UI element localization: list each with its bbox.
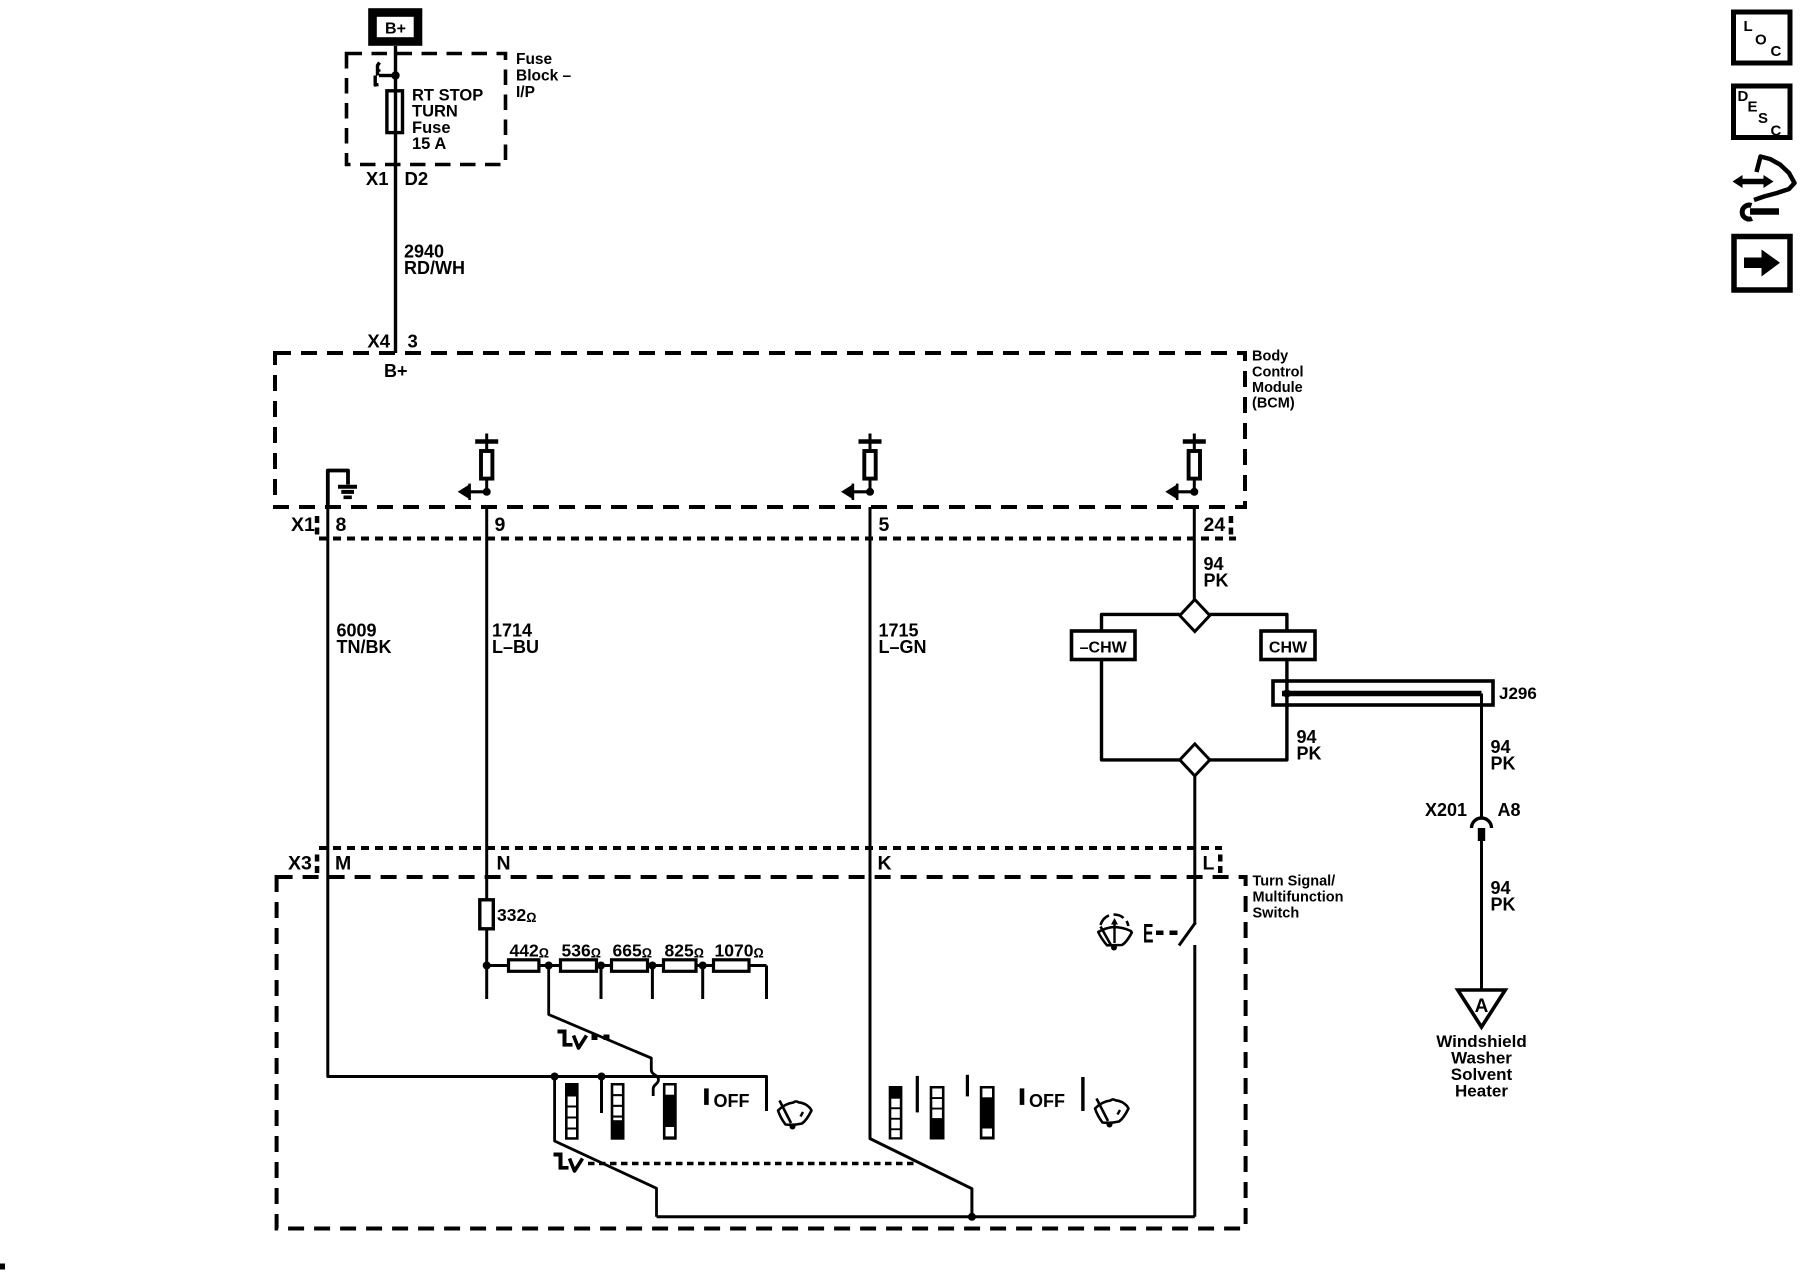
bus bar J296 (1273, 681, 1493, 705)
junction + stub (N lower contact) (598, 1073, 606, 1114)
position bar L1 (565, 1083, 579, 1140)
wire label 1715 L-GN (879, 621, 927, 658)
battery B+ terminal (373, 13, 419, 42)
svg-text:PK: PK (1297, 744, 1322, 764)
wiper contact 1 (delay positions) (549, 966, 659, 1097)
fuse holder clip (375, 63, 399, 86)
LOC box (1734, 12, 1791, 63)
svg-text:X4: X4 (367, 331, 390, 352)
wire label 2940 RD/WH (404, 242, 465, 279)
DESC box (1734, 86, 1791, 140)
wire 1715 L-GN (pin 5 / K) (870, 507, 972, 1217)
svg-text:N: N (497, 853, 511, 875)
svg-text:–CHW: –CHW (1080, 640, 1128, 657)
washer icon (left group) (778, 1101, 812, 1130)
svg-text:PK: PK (1204, 571, 1229, 591)
driver output pin 9 (BCM) (458, 434, 499, 501)
wire label 1714 L-BU (492, 621, 539, 658)
wire 94 PK X201 to heater (1480, 841, 1483, 990)
wire label 94 PK (right) (1491, 737, 1516, 774)
svg-text:E: E (1143, 919, 1154, 949)
svg-text:RD/WH: RD/WH (404, 258, 465, 278)
svg-text:Body: Body (1252, 349, 1288, 365)
position bar L3 (663, 1083, 677, 1140)
tap stub end of ladder (765, 966, 768, 1000)
position tick R0 (916, 1076, 919, 1113)
svg-text:TN/BK: TN/BK (337, 637, 392, 657)
svg-text:O: O (1755, 32, 1767, 49)
detent symbol 1 (558, 1030, 587, 1049)
splice diamond (bottom) (1180, 744, 1210, 776)
coil CHW box (1261, 631, 1315, 660)
switch arm (washer switch) (1179, 923, 1196, 946)
driver output pin 24 (BCM) (1165, 434, 1206, 501)
svg-text:L–GN: L–GN (879, 637, 927, 657)
connector X4 / 3 labels (BCM) (367, 331, 417, 352)
resistor 442 ohm (509, 941, 550, 972)
wire splice to CHW (1210, 614, 1287, 631)
svg-text:Module: Module (1252, 380, 1303, 396)
svg-text:X1: X1 (291, 514, 315, 536)
wire 94 PK bus to X201 (1480, 694, 1483, 819)
svg-text:X201: X201 (1425, 800, 1467, 820)
position tick R1 (966, 1075, 969, 1097)
fuse block I/P dashed box (347, 54, 506, 165)
windshield washer solvent heater label (1436, 1032, 1527, 1101)
connector A triangle (heater) (1458, 990, 1505, 1027)
svg-text:I/P: I/P (516, 84, 535, 101)
page corner mark (0, 1264, 5, 1270)
wire label 6009 TN/BK (337, 621, 392, 658)
junction bottom bus (968, 1213, 976, 1221)
wire 2940 B+ feed (394, 46, 397, 353)
wire N resistor to ladder (485, 929, 488, 999)
svg-text:(BCM): (BCM) (1252, 396, 1295, 412)
svg-text:OFF: OFF (714, 1091, 750, 1111)
svg-text:J296: J296 (1499, 684, 1537, 703)
fuse block label (516, 51, 572, 101)
bottom bus wire (657, 1215, 1195, 1218)
driver output pin 5 (BCM) (841, 434, 882, 501)
wire 94 PK (pin 24 to splice) (1193, 507, 1196, 600)
resistor 332 ohm (480, 900, 537, 929)
svg-text:L: L (1744, 18, 1753, 35)
resistor 665 ohm (612, 941, 653, 972)
junction + tap stub after 665 ohm (648, 962, 656, 1000)
ground symbol (BCM internal) (328, 471, 357, 508)
svg-text:X1: X1 (366, 168, 389, 189)
E dashes (1156, 931, 1178, 936)
wire 6009 TN/BK (pin 8 / M) (328, 507, 767, 1111)
svg-text:E: E (1748, 99, 1758, 116)
resistor 825 ohm (664, 941, 705, 972)
detent symbol 2 (554, 1153, 583, 1172)
svg-text:C: C (1771, 43, 1782, 60)
wire label 94 PK (lower) (1491, 878, 1516, 915)
svg-text:C: C (1771, 123, 1782, 140)
svg-text:24: 24 (1204, 514, 1226, 536)
navigation arrows + wrench icon (1733, 157, 1795, 220)
position bar L2 (611, 1083, 625, 1140)
resistor 536 ohm (561, 941, 602, 972)
svg-text:PK: PK (1491, 895, 1516, 915)
junction + tap stub after 825 ohm (699, 962, 707, 1000)
wire label 94 PK (upper) (1204, 554, 1229, 591)
svg-text:Multifunction: Multifunction (1253, 890, 1344, 906)
coil -CHW box (1072, 631, 1136, 660)
svg-text:15 A: 15 A (412, 135, 446, 153)
connector X1 strip (291, 514, 1236, 539)
turn signal switch label (1253, 874, 1344, 922)
svg-text:A: A (1475, 996, 1489, 1017)
wire CHW to bus J296 (1285, 660, 1288, 694)
connector X3 strip (288, 848, 1223, 875)
detent 1 dashes (592, 1035, 610, 1041)
svg-text:TURN: TURN (412, 103, 458, 121)
connector X1 / D2 labels (fuse block) (366, 168, 428, 189)
junction + tap stub after 442 ohm (545, 962, 553, 970)
svg-text:9: 9 (495, 514, 506, 536)
wire L switch lower (1193, 945, 1196, 1217)
wire -CHW to splice 2 (1102, 660, 1180, 760)
svg-text:PK: PK (1491, 754, 1516, 774)
junction M-wire / wiper 2 (551, 1073, 559, 1081)
svg-text:Block –: Block – (516, 68, 572, 85)
svg-text:3: 3 (408, 331, 418, 352)
position bar R1 (889, 1086, 903, 1140)
OFF tick (right) (1020, 1088, 1025, 1105)
svg-text:D2: D2 (405, 168, 429, 189)
fuse RT STOP TURN 15 A (387, 91, 403, 133)
position bar R2 (930, 1086, 945, 1140)
turn signal / multifunction switch dashed box (277, 877, 1246, 1229)
svg-text:Fuse: Fuse (516, 51, 553, 68)
wire label 94 PK (below CHW) (1297, 727, 1322, 764)
resistor ladder bus (483, 962, 767, 970)
svg-text:K: K (878, 853, 892, 875)
heated washer icon (1098, 915, 1132, 951)
svg-text:Switch: Switch (1253, 906, 1300, 922)
svg-text:M: M (335, 853, 351, 875)
svg-text:OFF: OFF (1029, 1091, 1065, 1111)
position bar R3 (980, 1086, 995, 1140)
resistor 1070 ohm (714, 941, 764, 972)
position tick R2 (1081, 1077, 1084, 1111)
svg-text:CHW: CHW (1269, 640, 1308, 657)
switch gang dotted line (588, 1162, 914, 1165)
svg-text:B+: B+ (384, 361, 408, 381)
wiper contact 2 (555, 1077, 657, 1217)
inline connector X201 A8 (1425, 800, 1521, 841)
svg-text:A8: A8 (1498, 800, 1521, 820)
BCM dashed box (275, 353, 1245, 507)
svg-text:X3: X3 (288, 853, 312, 875)
splice diamond (top) (1180, 600, 1210, 632)
svg-text:5: 5 (879, 514, 890, 536)
BCM label (1252, 349, 1304, 412)
wire L splice to switch (1193, 776, 1196, 925)
wire splice to -CHW (1102, 614, 1180, 631)
svg-text:8: 8 (336, 514, 347, 536)
wire 1714 L-BU (pin 9 / N) (485, 507, 488, 901)
svg-text:L–BU: L–BU (492, 637, 539, 657)
svg-text:S: S (1758, 110, 1768, 127)
svg-text:B+: B+ (385, 21, 406, 38)
junction + tap stub after 536 ohm (597, 962, 605, 1000)
svg-text:Heater: Heater (1455, 1082, 1508, 1101)
forward arrow box (1734, 237, 1790, 291)
svg-text:Control: Control (1252, 365, 1304, 381)
fuse label (412, 87, 483, 154)
OFF tick (left) (704, 1088, 709, 1105)
svg-text:L: L (1203, 853, 1215, 875)
svg-text:Turn Signal/: Turn Signal/ (1253, 874, 1336, 890)
wire bus to splice 2 (1210, 694, 1287, 760)
washer icon (right group) (1095, 1099, 1129, 1128)
